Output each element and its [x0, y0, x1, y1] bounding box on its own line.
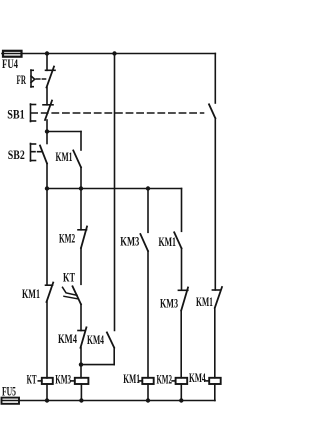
svg-text:SB1: SB1: [7, 109, 25, 122]
svg-text:KM1: KM1: [56, 151, 73, 164]
svg-text:KM3: KM3: [120, 236, 139, 249]
svg-text:KM2: KM2: [157, 374, 172, 388]
svg-text:KT: KT: [27, 374, 37, 388]
svg-text:SB2: SB2: [8, 149, 25, 162]
svg-text:FR: FR: [17, 74, 27, 87]
svg-text:KM3: KM3: [160, 298, 178, 311]
svg-text:FU5: FU5: [2, 386, 16, 399]
svg-text:KM2: KM2: [59, 233, 75, 246]
svg-text:KM1: KM1: [22, 289, 40, 302]
svg-text:KM1: KM1: [196, 296, 213, 309]
svg-text:KM3: KM3: [55, 374, 71, 387]
svg-text:KM1: KM1: [123, 373, 140, 386]
svg-text:KM1: KM1: [159, 236, 176, 249]
svg-text:KM4: KM4: [189, 372, 206, 385]
svg-text:KM4: KM4: [87, 334, 104, 347]
svg-text:KM4: KM4: [58, 334, 78, 347]
svg-text:FU4: FU4: [2, 59, 19, 72]
svg-text:KT: KT: [63, 272, 75, 285]
